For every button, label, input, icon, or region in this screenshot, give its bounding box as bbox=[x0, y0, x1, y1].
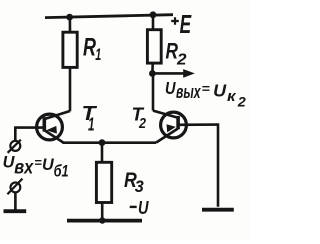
svg-text:=: = bbox=[34, 155, 42, 170]
svg-text:3: 3 bbox=[135, 178, 144, 196]
node output junction dot bbox=[149, 70, 156, 77]
resistor R2 bbox=[147, 30, 161, 63]
-U rail bar bottom-center bbox=[67, 219, 142, 223]
label T2 bbox=[132, 104, 147, 132]
wire R2 bottom to output node bbox=[151, 63, 154, 73]
label R3 bbox=[124, 169, 144, 196]
wire emitter node to R3 bbox=[101, 142, 104, 162]
label T1 bbox=[82, 103, 98, 135]
node junction dot on -U bar bbox=[99, 217, 105, 223]
node junction dot emitters to R3 bbox=[99, 139, 106, 146]
svg-text:1: 1 bbox=[95, 45, 101, 64]
svg-text:вх: вх bbox=[14, 158, 34, 179]
node junction dot on rail above R2 bbox=[150, 11, 157, 18]
svg-text:вых: вых bbox=[176, 81, 201, 102]
svg-text:U: U bbox=[213, 81, 226, 101]
wire output node down to T2 collector bbox=[152, 74, 155, 111]
arrowhead output bbox=[183, 69, 195, 78]
label +E bbox=[171, 9, 191, 39]
wire input corner down bbox=[14, 126, 17, 141]
svg-text:2: 2 bbox=[138, 116, 146, 132]
wire output arrow shaft bbox=[152, 72, 185, 75]
svg-text:к: к bbox=[227, 88, 237, 105]
wire lower terminal to ground bbox=[14, 192, 17, 209]
svg-text:U: U bbox=[165, 78, 176, 98]
svg-text:б1: б1 bbox=[54, 162, 69, 181]
svg-text:2: 2 bbox=[176, 51, 187, 68]
svg-text:R: R bbox=[83, 33, 96, 61]
label Uvyx=Uk2 output bbox=[165, 78, 246, 110]
transistor Q T1 bbox=[15, 111, 70, 143]
svg-text:2: 2 bbox=[237, 95, 247, 110]
wire T2 base down to ground bbox=[217, 123, 220, 206]
label R2 bbox=[166, 39, 187, 69]
svg-text:E: E bbox=[180, 9, 192, 39]
label -U bbox=[130, 197, 149, 218]
svg-text:=: = bbox=[202, 81, 211, 96]
wire rail to R1 bbox=[69, 17, 72, 33]
resistor R1 bbox=[63, 32, 77, 67]
wire R3 to -U bar bbox=[101, 203, 104, 220]
node junction dot on rail above R1 bbox=[66, 14, 73, 21]
svg-text:U: U bbox=[138, 197, 149, 218]
wire top +E rail bbox=[45, 15, 173, 18]
label R1 bbox=[83, 33, 101, 64]
wire rail to R2 bbox=[152, 15, 155, 30]
terminal input lower (circle with slash) bbox=[7, 179, 22, 195]
label Uvx=Ub1 input bbox=[3, 154, 69, 181]
svg-text:1: 1 bbox=[88, 114, 95, 134]
terminal input upper (circle with slash) bbox=[8, 140, 21, 153]
ground bar bottom-right bbox=[202, 208, 234, 212]
resistor R3 bbox=[96, 162, 111, 202]
wire R1 bottom to T1 collector bbox=[69, 67, 72, 111]
transistor Q T2 bbox=[153, 111, 218, 143]
wire common emitter line bbox=[63, 141, 157, 144]
ground bar bottom-left bbox=[4, 209, 27, 213]
